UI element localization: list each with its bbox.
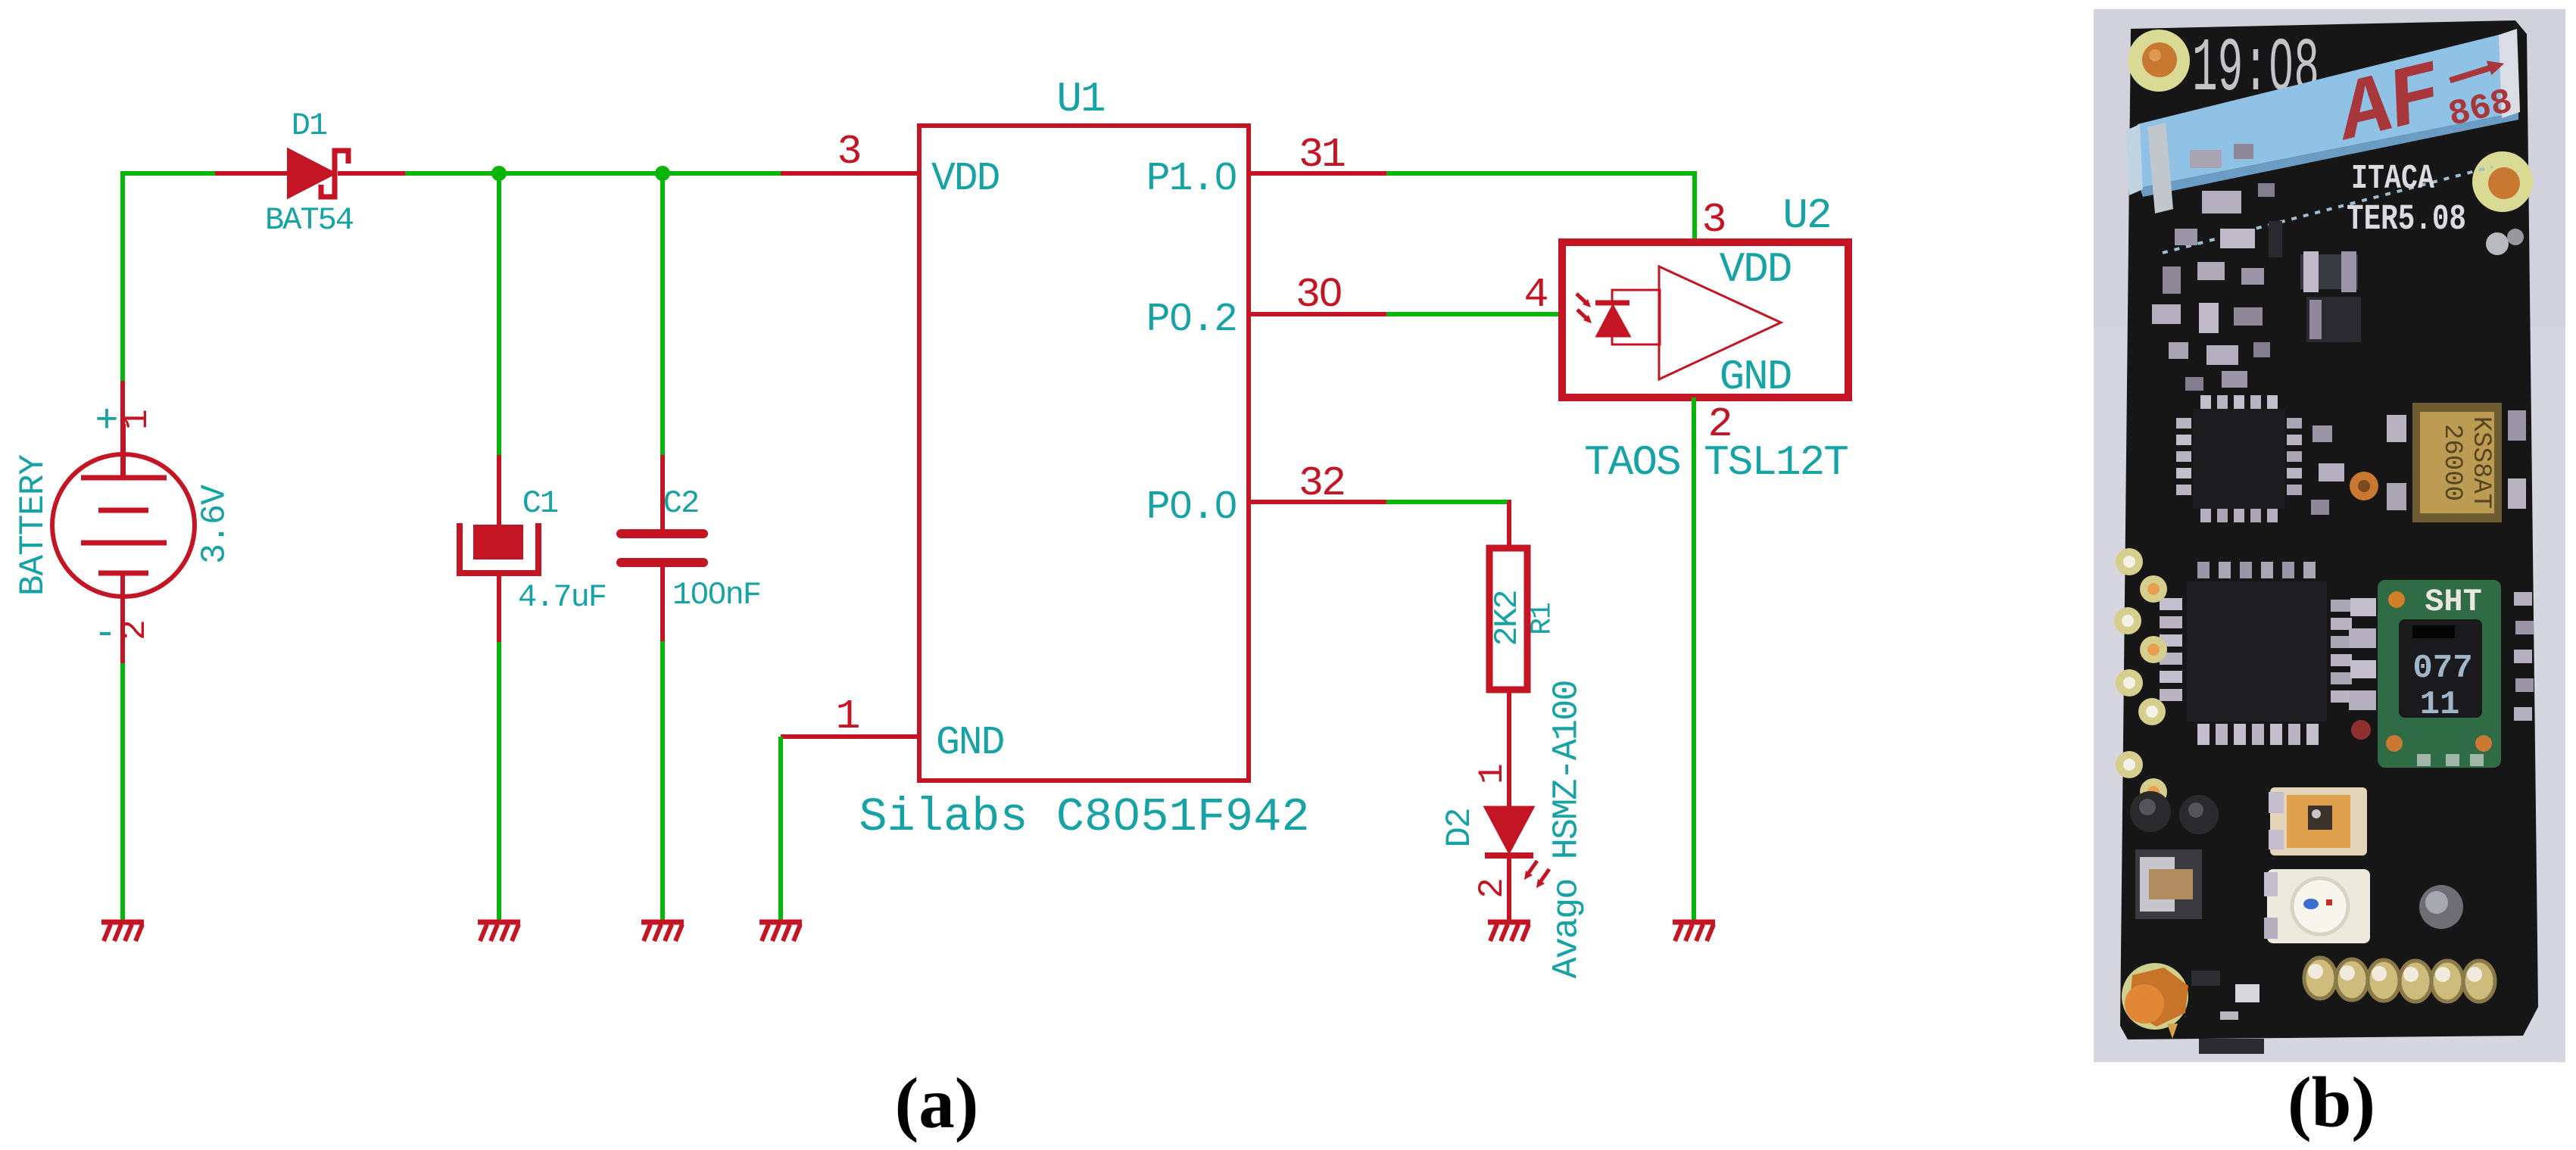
pin 3 number (837, 128, 862, 176)
svg-text:ITACA: ITACA (2351, 160, 2434, 198)
pin 1 line GND (red) (781, 734, 919, 739)
ground (battery) (101, 922, 144, 941)
antenna 868 label (2445, 83, 2517, 136)
battery plate long top (81, 424, 167, 478)
SHT sensor board (2378, 580, 2501, 768)
capacitor C1 value 4.7uF (518, 579, 606, 616)
caption (b) (2288, 1062, 2375, 1142)
svg-text:GND: GND (936, 720, 1004, 765)
U1 reference (1056, 75, 1104, 123)
D2 value Avago HSMZ-A100 (1548, 681, 1588, 978)
LED D2 reference (1440, 809, 1480, 847)
two black caps (2130, 791, 2219, 834)
svg-text:1: 1 (1473, 763, 1512, 784)
svg-text:C1: C1 (522, 485, 558, 522)
svg-text:TER5.08: TER5.08 (2347, 200, 2466, 240)
svg-text:KSS8AT: KSS8AT (2466, 416, 2495, 509)
svg-text:VDD: VDD (1720, 245, 1792, 294)
svg-text:2: 2 (1707, 400, 1732, 448)
battery pin number 2 (115, 619, 154, 640)
LED D2 emission arrow 1 (1524, 861, 1537, 880)
pin 1 number (835, 693, 860, 740)
U2 photon arrow 1 (1576, 294, 1591, 307)
svg-text:2: 2 (115, 619, 154, 640)
light sensor U2 body (1562, 242, 1848, 397)
U2 photodiode cathode bar (1595, 301, 1629, 306)
amber light sensor (2269, 787, 2367, 855)
capacitor C2 top pin (red) (660, 455, 665, 532)
solder blob right of TER (2486, 229, 2524, 255)
silkscreen TER5.08 (2347, 200, 2466, 240)
below-board shadow tab (2199, 1039, 2264, 1054)
solder tabs left of SHT (2349, 598, 2376, 740)
capacitor C1 top plate (filled) (473, 525, 523, 559)
battery bottom pin (red) (120, 572, 125, 663)
svg-text:26000: 26000 (2437, 424, 2466, 501)
pin 31 number (1299, 131, 1345, 179)
diode D1 triangle (288, 150, 334, 197)
wire C1 top (green) (497, 173, 501, 455)
battery plate long (81, 541, 167, 546)
pin name VDD (U1) (931, 156, 1000, 201)
PCB right mount hole (2472, 151, 2533, 212)
mid right dark component pair (2300, 251, 2361, 342)
gray resistor block bottom-left (2135, 849, 2202, 919)
pin name P0.0 (1146, 485, 1237, 530)
U2 pin 2 number (1707, 400, 1732, 448)
ground (C2) (641, 922, 684, 941)
capacitor C1 bottom cup (460, 523, 538, 573)
right edge small pads (2514, 592, 2534, 721)
svg-text:D1: D1 (292, 108, 327, 144)
U2 pin 4 number (1523, 271, 1548, 319)
svg-text:U1: U1 (1056, 75, 1104, 123)
U2 amplifier triangle (1659, 266, 1781, 379)
svg-text:1: 1 (117, 409, 157, 430)
svg-text:C2: C2 (663, 485, 698, 522)
photo background (2094, 9, 2565, 1062)
svg-text:U2: U2 (1782, 192, 1830, 240)
U2 photodiode triangle (1597, 306, 1629, 336)
wire U1 GND down (green) (778, 737, 783, 922)
battery value 3.6V (196, 485, 235, 564)
svg-text:1: 1 (835, 693, 860, 740)
PCB top-left mount hole (2128, 30, 2190, 92)
pin 32 number (1299, 460, 1344, 507)
D2 pin 2 number (1473, 877, 1512, 899)
svg-text:SHT: SHT (2425, 584, 2482, 620)
D2 pin 1 number (1473, 763, 1512, 784)
U2 pin name GND (1720, 353, 1792, 401)
svg-text:4: 4 (1523, 271, 1548, 319)
resistor R1 value 2K2 (1489, 591, 1527, 646)
antenna blue strip (2126, 29, 2520, 213)
pin 3 VDD of U1 (red pin line) (781, 171, 919, 176)
wire battery to ground (green) (120, 663, 125, 922)
U2 photon arrow 2 (1577, 310, 1592, 323)
wire C2 top (green) (660, 173, 665, 455)
svg-text:31: 31 (1299, 131, 1345, 179)
D2 cathode pin to ground (red) (1507, 855, 1511, 922)
diode D1 reference (292, 108, 327, 144)
svg-text:BAT54: BAT54 (265, 202, 354, 238)
dashed silk line under antenna (2163, 167, 2493, 253)
bottom small white marks (2191, 971, 2259, 1020)
antenna AF logo (2326, 46, 2453, 164)
silkscreen 19:08 digits (2192, 27, 2319, 113)
diode D1 value BAT54 (265, 202, 354, 238)
wire C2 to ground (green) (660, 641, 665, 922)
svg-text:-: - (93, 612, 117, 656)
wire D1 cathode stub (red) (338, 171, 405, 176)
capacitor C2 plate 2 (621, 558, 703, 567)
svg-text:BATTERY: BATTERY (14, 454, 53, 596)
op-amp U1 body (MCU box) (919, 126, 1249, 781)
svg-text:2K2: 2K2 (1489, 591, 1527, 646)
crystal 26000 KSS8AT (2387, 403, 2526, 522)
svg-text:11: 11 (2420, 686, 2460, 724)
pin name P1.0 (1146, 156, 1237, 201)
pin 31 line P1.0 (red) (1249, 171, 1386, 176)
svg-text:3.6V: 3.6V (196, 485, 235, 564)
ground (C1) (478, 922, 520, 941)
svg-text:P0.2: P0.2 (1146, 297, 1237, 342)
gray button bottom right (2419, 885, 2463, 929)
svg-text:D2: D2 (1440, 809, 1480, 847)
R1 bottom pin to D2 (red) (1507, 690, 1511, 807)
resistor R1 reference (1527, 603, 1559, 635)
battery BT1 circle (52, 454, 195, 597)
wire P0.2 to U2 input (green) (1386, 312, 1562, 316)
pin 32 line P0.0 (red) (1249, 500, 1386, 504)
wire D1 anode stub (red) (215, 171, 288, 176)
node junction dot C2 (655, 166, 670, 181)
battery plate short bottom (98, 571, 148, 576)
svg-text:Avago HSMZ-A100: Avago HSMZ-A100 (1548, 681, 1588, 978)
LED D2 cathode bar (1485, 852, 1533, 859)
zero-dot cover in 19:08 (2276, 56, 2285, 71)
wire C1 to ground (green) (497, 642, 501, 922)
battery plus sign (95, 399, 118, 444)
capacitor C2 value 100nF (672, 577, 760, 613)
wire U2 GND down (green) (1692, 397, 1696, 922)
svg-text:30: 30 (1296, 271, 1341, 319)
R1 top pin (red) (1508, 502, 1509, 548)
parts between chips (2311, 425, 2378, 515)
left edge plated rings (2114, 548, 2167, 806)
svg-text:(a): (a) (895, 1063, 979, 1143)
caption (a) (895, 1063, 979, 1143)
silkscreen ITACA (2351, 160, 2434, 198)
diode D1 schottky cathode (321, 151, 348, 197)
ground (U1 GND) (759, 922, 802, 941)
svg-text:077: 077 (2412, 650, 2472, 687)
pin 30 line P0.2 (red) (1249, 312, 1386, 316)
node junction dot C1 (491, 166, 507, 181)
svg-text:32: 32 (1299, 460, 1344, 507)
svg-text:4.7uF: 4.7uF (518, 579, 606, 616)
bottom-left orange standoff (2122, 963, 2188, 1039)
LED D2 emission arrow 2 (1536, 869, 1549, 888)
U1 value Silabs C8051F942 (859, 790, 1309, 844)
svg-text:+: + (95, 399, 118, 444)
capacitor C2 reference (663, 485, 698, 522)
white LED (2264, 869, 2370, 943)
ground (D2) (1488, 922, 1530, 941)
capacitor C2 plate 1 (621, 529, 703, 538)
svg-text:3: 3 (1701, 196, 1726, 244)
ground (U2) (1673, 922, 1715, 941)
MCU chip QFP (2160, 562, 2352, 745)
capacitor C1 reference (522, 485, 558, 522)
battery plate short (98, 508, 148, 513)
svg-text:R1: R1 (1527, 603, 1559, 635)
pin name GND (U1) (936, 720, 1004, 765)
svg-text:GND: GND (1720, 353, 1792, 401)
wire top bus D1 to U1 VDD (green) (405, 171, 781, 176)
battery label BATTERY (14, 454, 53, 596)
U2 pin name VDD (1720, 245, 1792, 294)
upper parts cluster (2152, 144, 2282, 391)
svg-text:2: 2 (1473, 877, 1512, 899)
pin 30 number (1296, 271, 1341, 319)
svg-text:(b): (b) (2288, 1062, 2375, 1142)
wire P0.0 to R1 (green) (1386, 500, 1508, 504)
zero-dot covers (match plain zeros of target font) (695, 169, 1334, 819)
wire battery top corner to D1 (green) (123, 173, 215, 381)
U2 pin 3 number (1701, 196, 1726, 244)
capacitor C2 bottom pin (red) (660, 564, 665, 641)
resistor R1 body (1489, 548, 1527, 690)
bottom gold pads row (2304, 958, 2495, 1002)
svg-text:3: 3 (837, 128, 862, 176)
antenna arrow (2447, 57, 2506, 85)
U2 reference (1782, 192, 1830, 240)
RF chip QFN (2176, 395, 2302, 522)
U2 value TAOS TSL12T (1584, 438, 1848, 487)
battery top pin (red) (120, 381, 125, 478)
LED D2 triangle (1485, 807, 1533, 852)
svg-text:Silabs C8051F942: Silabs C8051F942 (859, 790, 1309, 844)
battery minus sign (93, 612, 117, 656)
U2 photodiode box (1612, 290, 1660, 344)
capacitor C1 top pin (red) (497, 455, 501, 528)
PCB board (2120, 20, 2538, 1039)
wire P1.0 to U2 VDD (green) (1386, 173, 1695, 243)
pin name P0.2 (1146, 297, 1237, 342)
battery pin number 1 (117, 409, 157, 430)
svg-text:VDD: VDD (931, 156, 1000, 201)
capacitor C1 bottom pin (red) (497, 573, 501, 642)
